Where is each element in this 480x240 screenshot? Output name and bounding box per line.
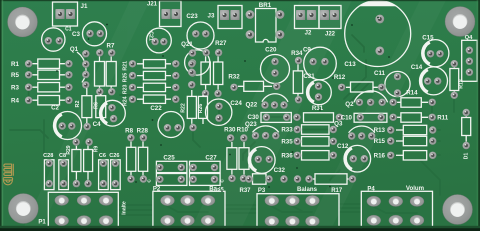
resistor R29 body: [72, 150, 81, 172]
svg-text:C13: C13: [344, 61, 356, 68]
R36 pads: [293, 151, 337, 159]
svg-text:C22: C22: [150, 105, 162, 112]
svg-text:R16: R16: [374, 153, 386, 160]
resistor R28 body: [138, 147, 147, 171]
svg-text:R22: R22: [181, 103, 187, 113]
C14 pads: [424, 77, 442, 85]
connector J22 outline: [319, 6, 341, 29]
svg-text:R1: R1: [11, 61, 19, 68]
svg-text:J1: J1: [81, 3, 88, 10]
resistor R23 pads: [128, 83, 180, 91]
svg-text:Q22: Q22: [245, 102, 257, 109]
via dots: [56, 17, 390, 192]
svg-text:R8: R8: [125, 128, 133, 135]
svg-text:R9: R9: [94, 146, 100, 153]
mounting hole top-left: [8, 7, 38, 37]
capacitor C2 outline: [54, 112, 82, 140]
svg-text:R32: R32: [228, 74, 240, 81]
resistor R23 body: [143, 83, 165, 91]
resistor R31 body: [304, 113, 334, 122]
P1 pads: [55, 195, 113, 226]
R22 bottom pad: [189, 123, 197, 131]
Q2 pads: [355, 98, 386, 106]
resistor R9 body: [84, 150, 93, 172]
resistor R10 body: [239, 148, 249, 170]
svg-text:R7: R7: [107, 43, 115, 50]
svg-text:R13: R13: [374, 127, 386, 134]
wire: [232, 170, 244, 178]
resistor R3 pads: [25, 83, 74, 91]
svg-text:C28: C28: [43, 153, 53, 159]
capacitor C30 body: [261, 113, 291, 123]
svg-text:C15: C15: [422, 35, 434, 42]
svg-text:C32: C32: [274, 167, 286, 174]
wire: [218, 106, 220, 118]
svg-text:R37: R37: [239, 188, 251, 194]
Q22 pads: [261, 101, 288, 109]
node pads: [280, 175, 302, 183]
capacitor C1 circle: [42, 28, 65, 51]
svg-text:R12: R12: [334, 74, 346, 81]
resistor R4 pads: [25, 96, 74, 104]
svg-text:R15: R15: [374, 138, 386, 145]
wire: [266, 117, 333, 130]
capacitor C13 polarity stripe: [345, 7, 411, 34]
capacitor C26 body: [111, 160, 121, 190]
connector J21 outline: [160, 1, 182, 27]
svg-text:P1: P1: [38, 219, 46, 225]
R34 pads: [294, 56, 302, 103]
capacitor C12 polarity crescent: [346, 148, 352, 169]
svg-text:C11: C11: [374, 70, 386, 77]
capacitor C14 polarity crescent: [421, 70, 428, 92]
Q3 pads: [348, 132, 376, 140]
svg-text:R25: R25: [123, 73, 129, 83]
svg-text:R29: R29: [66, 145, 72, 154]
transistor Q3 arc: [349, 126, 375, 133]
capacitor C22 outline: [158, 112, 184, 138]
wire: [118, 205, 152, 215]
wire: [86, 53, 112, 84]
svg-text:R31: R31: [312, 105, 324, 112]
resistor R7 body: [95, 62, 105, 87]
C11 pads: [393, 72, 401, 97]
capacitor C16 body: [156, 174, 187, 186]
capacitor C3 outline: [83, 22, 107, 46]
transistor Q23 arc: [253, 126, 279, 133]
wire: [352, 35, 364, 52]
capacitor C11 outline: [385, 71, 410, 96]
wire: [420, 160, 440, 195]
capacitor C2 polarity crescent: [55, 114, 62, 136]
R2/R6 leads: [87, 88, 101, 123]
R8/R28 pads: [127, 134, 148, 184]
wire: [374, 207, 417, 213]
svg-text:R11: R11: [437, 115, 449, 122]
resistor R11 body: [401, 113, 421, 122]
resistor R5 pads: [25, 71, 74, 79]
wire: [243, 142, 255, 160]
svg-text:C24: C24: [230, 100, 242, 107]
C23 pads: [192, 30, 210, 38]
resistor R5 body: [38, 70, 60, 79]
C32 pads: [254, 155, 273, 163]
resistor R12 body: [351, 82, 374, 92]
transistor Q21 outline: [185, 50, 210, 75]
svg-text:Q1: Q1: [70, 46, 79, 53]
svg-text:R34: R34: [291, 50, 303, 57]
wire: [348, 81, 371, 104]
resistor R27a body: [201, 62, 210, 85]
wire: [398, 93, 433, 117]
wire: [330, 170, 340, 180]
R30/R10 pads: [227, 134, 248, 183]
svg-text:R35: R35: [281, 139, 293, 146]
R16 pads: [387, 151, 437, 159]
R35 pads: [293, 137, 337, 145]
svg-text:R36: R36: [281, 153, 293, 160]
svg-text:J3: J3: [208, 13, 215, 20]
svg-text:C30: C30: [248, 114, 260, 121]
resistor R24 pads: [128, 95, 180, 103]
capacitor C12 outline: [344, 145, 371, 172]
resistor R8 body: [127, 147, 136, 171]
resistor R36 body: [302, 151, 330, 160]
capacitor C13 outline: [345, 1, 411, 67]
svg-text:J22: J22: [325, 32, 336, 38]
resistor R33 body: [302, 125, 330, 134]
R11 pads: [389, 113, 436, 121]
R17 pads: [305, 175, 357, 183]
connector J1 pads 1-2: [55, 9, 75, 19]
R18 pads: [450, 60, 458, 100]
Q23 pads: [251, 132, 280, 140]
capacitor C28 body: [44, 160, 54, 190]
C24 pads: [215, 102, 223, 122]
capacitor C27 body: [190, 161, 221, 172]
resistor R3 body: [38, 83, 60, 92]
capacitor C6 body: [99, 160, 109, 190]
svg-text:R23: R23: [123, 85, 129, 95]
C6 pads: [99, 159, 107, 188]
C3 pads: [86, 29, 104, 37]
C28 pads: [45, 159, 53, 188]
R29/R9 pads: [72, 138, 93, 188]
Q1/R2 pad column: [82, 50, 90, 89]
C21 pads: [151, 38, 168, 46]
resistor R35 body: [302, 137, 330, 146]
resistor R17 body: [315, 174, 347, 184]
svg-text:C2: C2: [51, 106, 59, 112]
wire: [193, 127, 200, 147]
capacitor C14 outline: [420, 67, 448, 95]
resistor R21b body: [106, 62, 116, 87]
resistor R34 body: [293, 71, 302, 94]
svg-text:P3: P3: [258, 188, 266, 194]
R15 pads: [387, 137, 437, 145]
capacitor C31 polarity crescent: [308, 83, 314, 102]
C4 circle pads: [108, 104, 118, 123]
capacitor C21 outline: [147, 28, 172, 53]
capacitor C24 outline: [206, 99, 232, 125]
svg-text:P2: P2: [153, 187, 161, 193]
connector P3 outline: [257, 194, 339, 231]
wire: [60, 183, 103, 191]
connector J2 outline: [295, 6, 320, 29]
resistor R21 pads: [128, 60, 180, 68]
C26 pads: [111, 159, 119, 188]
C18 pads: [189, 175, 219, 183]
C10 pads: [356, 113, 385, 121]
svg-text:C26: C26: [109, 153, 119, 159]
svg-text:C10: C10: [341, 115, 353, 122]
resistor R6 body: [96, 96, 106, 118]
resistor R25 body: [143, 71, 165, 79]
resistor R26 body: [198, 96, 207, 118]
resistor R15 body: [403, 136, 426, 145]
svg-text:R3: R3: [11, 84, 19, 91]
resistor R1 pads: [25, 60, 74, 68]
svg-text:C6: C6: [99, 153, 106, 159]
wire: [225, 205, 257, 213]
svg-text:J2: J2: [305, 31, 312, 37]
svg-text:C27: C27: [205, 155, 217, 162]
capacitor C10 body: [354, 113, 387, 122]
capacitor C4 polarity crescent: [101, 103, 107, 123]
resistor R2 body: [82, 96, 92, 118]
capacitor C15 outline: [422, 40, 449, 67]
R12 pads: [338, 83, 386, 91]
wire: [28, 64, 30, 100]
connector J1 outline: [53, 2, 78, 26]
svg-text:R5: R5: [11, 72, 19, 79]
svg-text:R4: R4: [11, 97, 19, 104]
svg-text:C31: C31: [303, 73, 315, 80]
mounting hole top-right: [445, 7, 475, 37]
svg-text:R6: R6: [94, 102, 100, 109]
C13 pads: [375, 14, 385, 56]
svg-text:R14: R14: [406, 89, 418, 96]
C16 pads: [156, 175, 186, 183]
connector J3 outline: [218, 6, 242, 29]
svg-text:C14: C14: [411, 64, 423, 71]
capacitor C18 body: [190, 174, 221, 186]
transistor Q2 arc: [354, 91, 388, 103]
wire: [44, 120, 49, 165]
C12 pads: [349, 155, 368, 163]
svg-text:C23: C23: [186, 13, 198, 20]
resistor R1 body: [38, 59, 60, 68]
svg-text:J21: J21: [147, 2, 158, 8]
svg-text:C9: C9: [303, 46, 311, 53]
R37 pads: [245, 175, 273, 183]
resistor R22 body: [187, 96, 196, 118]
svg-text:Q4: Q4: [465, 35, 474, 41]
svg-text:C12: C12: [337, 143, 349, 150]
svg-text:Inalte: Inalte: [122, 201, 128, 215]
wire: [120, 95, 138, 101]
svg-text:Q2: Q2: [345, 101, 354, 108]
logo ITD gold: [3, 164, 13, 185]
svg-text:C1: C1: [65, 27, 72, 33]
capacitor C25 body: [156, 161, 187, 172]
resistor R27 body: [214, 62, 223, 85]
C25 pads: [156, 163, 186, 171]
svg-text:C21: C21: [148, 31, 154, 41]
svg-text:Q21: Q21: [181, 41, 193, 48]
bridge rectifier BR1 outline: [256, 9, 277, 43]
svg-text:C20: C20: [265, 46, 277, 53]
svg-text:BR1: BR1: [259, 2, 272, 9]
capacitor C4 circle outline: [100, 100, 126, 126]
C27 pads: [189, 163, 219, 171]
C9 pads: [309, 58, 329, 66]
R14 pads: [389, 98, 436, 106]
C4 pad: [83, 122, 91, 130]
resistor R21 body: [143, 60, 165, 68]
connector J3 pads 1-2: [220, 10, 240, 20]
connector J2 pads 1-2: [296, 10, 316, 20]
Q4 pads: [465, 46, 473, 76]
wire: [454, 95, 466, 118]
R13 pads: [387, 126, 437, 134]
resistor R13 body: [403, 125, 426, 134]
wire: [10, 130, 48, 138]
svg-text:R33: R33: [281, 127, 293, 134]
resistor R30 body: [227, 148, 237, 170]
svg-text:R27: R27: [215, 40, 227, 47]
connector P1 outline: [48, 192, 118, 230]
connector J21 pads 1-2: [161, 9, 180, 19]
C1 pads: [44, 37, 63, 45]
resistor R16 body: [403, 151, 426, 160]
svg-text:Volum: Volum: [406, 185, 425, 192]
board edge bevels: [0, 0, 480, 1]
mounting hole bottom-left: [8, 194, 38, 224]
svg-text:R2: R2: [75, 101, 81, 108]
svg-text:R26: R26: [198, 104, 204, 114]
capacitor C32 outline: [248, 147, 275, 174]
resistor R25 pads: [128, 72, 180, 80]
capacitor C9 outline: [304, 47, 337, 80]
svg-text:R10: R10: [237, 127, 249, 134]
svg-text:C4: C4: [93, 121, 101, 128]
R27 group pads: [201, 49, 222, 98]
resistor R24 body: [143, 95, 165, 103]
R7 group pads: [96, 49, 116, 96]
capacitor C23 outline: [187, 22, 214, 49]
C31 pads: [314, 82, 322, 101]
svg-text:R28: R28: [137, 128, 149, 135]
svg-text:R21: R21: [123, 61, 129, 71]
connector J22 pads 1-2: [320, 10, 339, 20]
wire: [167, 206, 208, 212]
svg-text:C25: C25: [163, 155, 175, 162]
P3 pads: [265, 195, 320, 226]
capacitor C15 polarity crescent: [423, 42, 430, 63]
connector P2 outline: [153, 191, 225, 230]
mounting hole bottom-right: [443, 195, 473, 225]
transistor Q1 arc: [77, 52, 86, 83]
connector P4 outline: [361, 191, 432, 230]
Q21 pads: [188, 49, 196, 77]
svg-text:C3: C3: [72, 31, 80, 38]
C8 pads: [60, 159, 68, 188]
C30 pads: [262, 113, 291, 121]
resistor R14 body: [401, 98, 421, 107]
diode D1 body: [462, 118, 471, 136]
resistor R37 body: [253, 174, 267, 184]
wire: [344, 60, 366, 99]
resistor R4 body: [38, 96, 60, 105]
D1 pads: [462, 108, 470, 149]
wire: [339, 204, 361, 212]
R32 pads: [230, 82, 281, 91]
P2 pads: [161, 195, 216, 225]
node column pads: [188, 60, 196, 89]
resistor R18 body: [450, 69, 459, 91]
capacitor C32 polarity crescent: [250, 149, 256, 170]
capacitor C20 outline: [261, 55, 290, 84]
svg-text:R24: R24: [123, 96, 129, 106]
svg-text:R30: R30: [224, 127, 236, 134]
P4 pads: [367, 196, 424, 225]
R33 pads: [293, 125, 337, 133]
wire: [271, 206, 312, 212]
R31 pads: [293, 113, 344, 121]
wire: [433, 130, 440, 155]
capacitor C8 body: [59, 160, 69, 190]
C22 pads: [163, 124, 182, 132]
BR1 pads: [245, 10, 285, 40]
C20 pads: [271, 57, 279, 77]
resistor R32 body: [244, 81, 264, 91]
C2 pads: [58, 122, 76, 130]
connector Q4 outline: [462, 40, 477, 81]
svg-text:P4: P4: [367, 187, 375, 193]
svg-text:Balans: Balans: [297, 186, 318, 193]
svg-text:D1: D1: [464, 153, 470, 160]
transistor Q22 arc: [262, 94, 288, 102]
C15 pads: [426, 50, 444, 58]
capacitor C31 outline: [307, 80, 332, 105]
